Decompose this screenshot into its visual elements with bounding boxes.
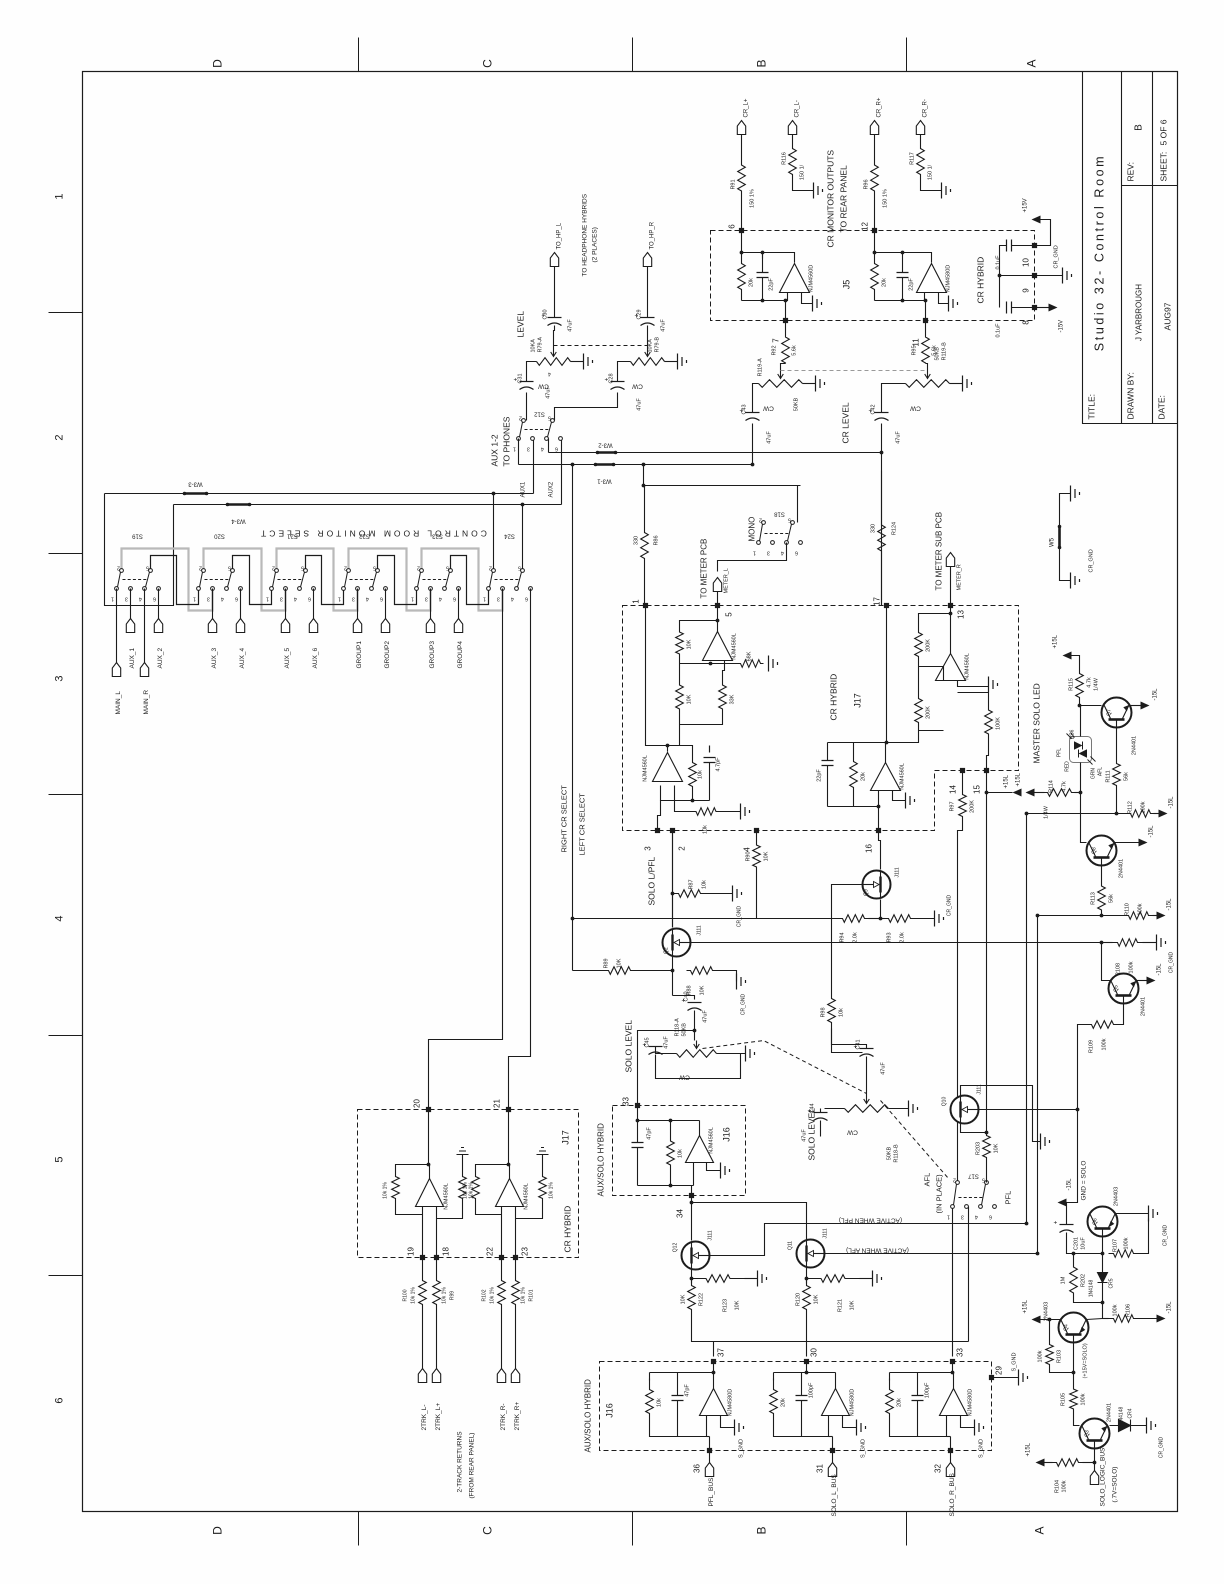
junction bbox=[751, 463, 755, 467]
svg-text:10k: 10k bbox=[657, 1398, 663, 1407]
ground R88 bbox=[737, 974, 746, 990]
ground R116 bbox=[814, 183, 823, 199]
wire R106 to -15L bbox=[1139, 1318, 1157, 1320]
wire to connector AUX_6 bbox=[313, 589, 315, 619]
potentiometer R79-B bbox=[631, 358, 665, 366]
wire 22pF top lead bbox=[762, 253, 764, 273]
svg-text:J17: J17 bbox=[561, 1130, 571, 1145]
wire to summing opamp L bbox=[668, 718, 680, 752]
resistor 20k j17 bbox=[850, 743, 858, 807]
resistor resistor 10k bbox=[646, 1379, 654, 1425]
svg-text:3: 3 bbox=[207, 596, 210, 602]
wire R108 to ground bbox=[1143, 942, 1157, 944]
pin 33 pad lower bbox=[950, 1359, 955, 1364]
resistor 100K j17 bbox=[985, 701, 993, 744]
svg-text:5: 5 bbox=[725, 612, 734, 617]
potentiometer R79-A bbox=[537, 358, 571, 366]
svg-text:29: 29 bbox=[995, 1366, 1004, 1375]
wire R123 to ground bbox=[745, 1278, 758, 1280]
wire to output pad bbox=[950, 1437, 952, 1451]
svg-text:D: D bbox=[211, 59, 225, 68]
svg-text:5: 5 bbox=[301, 565, 304, 571]
wire inv input left bbox=[742, 293, 788, 301]
wire noninv to ground left bbox=[802, 293, 813, 304]
wire bus-b to C43 bbox=[752, 424, 754, 465]
wire CR5 to junction bbox=[1102, 1291, 1104, 1319]
potentiometer R118-B bbox=[845, 1105, 889, 1113]
svg-text:AUX_3: AUX_3 bbox=[211, 648, 218, 669]
wire R94-R93 join bbox=[869, 918, 885, 920]
resistor R97 200K bbox=[959, 789, 967, 823]
svg-text:+: + bbox=[1054, 1220, 1060, 1224]
resistor R91 150 1% bbox=[738, 135, 746, 222]
svg-text:D: D bbox=[211, 1526, 225, 1535]
svg-text:CR_GND: CR_GND bbox=[741, 994, 747, 1016]
svg-text:200K: 200K bbox=[926, 639, 932, 652]
wire 22pF bottom lead bbox=[762, 278, 764, 301]
switch S12 bbox=[517, 419, 563, 441]
svg-text:4: 4 bbox=[294, 596, 297, 602]
svg-text:NJM4580D: NJM4580D bbox=[728, 1389, 734, 1417]
svg-text:1: 1 bbox=[411, 596, 414, 602]
junction bbox=[998, 274, 1002, 278]
svg-text:CR_GND: CR_GND bbox=[1169, 952, 1175, 974]
svg-text:2: 2 bbox=[953, 1177, 956, 1183]
wire inv input right bbox=[875, 293, 925, 301]
wire to C40 bbox=[673, 996, 695, 1000]
svg-text:AUX_6: AUX_6 bbox=[312, 648, 319, 669]
svg-text:R203: R203 bbox=[976, 1142, 982, 1155]
wire to sum R node bbox=[887, 731, 919, 743]
dashed box J17 lower bbox=[358, 1110, 579, 1258]
svg-text:2: 2 bbox=[759, 517, 762, 523]
svg-text:6: 6 bbox=[795, 550, 798, 556]
potentiometer R118-A bbox=[677, 1050, 717, 1058]
wire rg bottom bbox=[516, 1207, 543, 1219]
transistor Q12 J111 bbox=[682, 1242, 710, 1270]
svg-text:R92: R92 bbox=[772, 345, 778, 355]
svg-text:+15L: +15L bbox=[1004, 774, 1010, 788]
gang link dashed R119 bbox=[781, 370, 928, 372]
svg-text:4.7k: 4.7k bbox=[1087, 677, 1093, 688]
wire gate net down to C201 bbox=[1067, 1110, 1078, 1203]
wire noninv to 33K bbox=[723, 661, 725, 677]
svg-text:R120: R120 bbox=[796, 1293, 802, 1306]
resistor R107 100k bbox=[1109, 1250, 1139, 1258]
wire 200K bottom bbox=[919, 730, 944, 732]
svg-text:10k 1%: 10k 1% bbox=[490, 1287, 496, 1304]
resistor 10k gnd leg bbox=[691, 808, 722, 816]
wire Q3 base down bbox=[1094, 1449, 1096, 1463]
wire pin into stage bbox=[952, 1362, 954, 1373]
wire r top bbox=[649, 1373, 651, 1381]
svg-text:C201: C201 bbox=[1074, 1237, 1080, 1250]
svg-text:CR HYBRID: CR HYBRID bbox=[829, 674, 839, 721]
svg-text:68K: 68K bbox=[747, 651, 753, 661]
junction bbox=[1100, 914, 1104, 918]
wire Q7 emitter to R111 bbox=[1116, 728, 1118, 759]
svg-text:1: 1 bbox=[266, 596, 269, 602]
svg-text:METER_L: METER_L bbox=[724, 568, 730, 593]
wire gray select bus segment bbox=[122, 549, 213, 611]
wire pin6 into box bbox=[741, 231, 743, 253]
svg-text:AFL: AFL bbox=[923, 1173, 932, 1187]
svg-text:S17: S17 bbox=[968, 1173, 979, 1179]
wire Q10 source to R203 bbox=[961, 1124, 987, 1133]
resistor R98 10k bbox=[828, 993, 836, 1029]
svg-text:150 1%: 150 1% bbox=[750, 189, 756, 208]
svg-text:AUX2: AUX2 bbox=[549, 481, 555, 497]
capacitor C43 bbox=[746, 412, 760, 414]
pin 8 pad bbox=[1032, 305, 1037, 310]
svg-text:NJM4560L: NJM4560L bbox=[444, 1183, 450, 1210]
wire R121 to ground bbox=[860, 1278, 873, 1280]
wire R102 to connector bbox=[501, 1313, 503, 1369]
svg-text:(ACTIVE WHEN PFL): (ACTIVE WHEN PFL) bbox=[839, 1217, 902, 1224]
resistor 10k J16u bbox=[667, 1121, 675, 1186]
wire stage top rail bbox=[890, 1372, 954, 1374]
connector MAIN_R bbox=[140, 663, 148, 677]
ground near R203 bbox=[1041, 1134, 1050, 1150]
capacitor 100pF bbox=[912, 1396, 924, 1401]
wire stage bottom rail bbox=[650, 1425, 707, 1437]
svg-text:9: 9 bbox=[1022, 288, 1031, 293]
svg-text:NJM4580D: NJM4580D bbox=[850, 1389, 856, 1417]
wire pin1 run bbox=[646, 606, 668, 746]
wire R107 up to gnd rail bbox=[1139, 1219, 1149, 1254]
wire opamp out to node bbox=[885, 743, 887, 763]
wire pot left to C45 bbox=[656, 1047, 677, 1054]
op-amp NJM4560L meter L bbox=[703, 632, 733, 661]
svg-text:12: 12 bbox=[861, 222, 870, 231]
wire wiper B to C29 bbox=[647, 326, 649, 349]
jumper W3-2 bbox=[598, 451, 616, 454]
svg-text:NJM4580D: NJM4580D bbox=[946, 265, 952, 293]
switch S22 bbox=[342, 569, 388, 591]
svg-text:33: 33 bbox=[622, 1097, 631, 1106]
wire to J16 upper input bbox=[638, 1031, 695, 1106]
pin 1 pad bbox=[643, 603, 648, 608]
svg-text:10K: 10K bbox=[764, 851, 770, 861]
wire fb bottom bbox=[396, 1207, 423, 1215]
junction bbox=[669, 1184, 673, 1188]
wire PFL feed vertical bbox=[1026, 814, 1028, 1224]
pin 16 pad bbox=[876, 828, 881, 833]
junction bbox=[427, 1163, 431, 1167]
svg-text:2: 2 bbox=[344, 565, 347, 571]
svg-text:2N4403: 2N4403 bbox=[1114, 1187, 1120, 1206]
wire bus to pin33 bbox=[952, 1342, 954, 1357]
resistor R202 1M bbox=[1070, 1259, 1078, 1302]
svg-text:W3-2: W3-2 bbox=[598, 442, 613, 448]
wire bottom to pad bbox=[947, 1436, 951, 1438]
jumper W3-1 bbox=[596, 463, 614, 466]
resistor R122 10K bbox=[688, 1279, 696, 1317]
svg-text:NJM4580D: NJM4580D bbox=[968, 1389, 974, 1417]
power arrow -15L R110 bbox=[1157, 912, 1166, 920]
svg-text:22pF: 22pF bbox=[817, 769, 823, 782]
svg-text:R202: R202 bbox=[1081, 1274, 1087, 1287]
svg-text:MONO: MONO bbox=[748, 517, 757, 542]
svg-text:6: 6 bbox=[153, 596, 156, 602]
resistor R114 4.7k bbox=[1045, 789, 1075, 797]
connector TO_HP_R bbox=[643, 253, 651, 267]
svg-text:J111: J111 bbox=[895, 867, 901, 877]
svg-text:50KB: 50KB bbox=[794, 397, 800, 411]
wire pad to R100 bbox=[422, 1258, 424, 1273]
svg-text:R110: R110 bbox=[1125, 903, 1131, 916]
wire pot B right to ground bbox=[889, 1108, 909, 1110]
resistor 200K a bbox=[915, 623, 923, 667]
svg-text:16: 16 bbox=[865, 844, 874, 853]
wire CR_L- to R116 bbox=[792, 135, 794, 145]
junction bbox=[1115, 812, 1119, 816]
svg-text:AUX_4: AUX_4 bbox=[239, 648, 246, 669]
svg-text:R119-A: R119-A bbox=[758, 358, 764, 377]
op-amp NJM4580D right bbox=[917, 264, 947, 293]
wire bus-a to C42 bbox=[881, 424, 883, 453]
wire noninv sum R bbox=[893, 791, 906, 801]
wire Q5 to -15L bbox=[1137, 980, 1147, 982]
svg-text:34: 34 bbox=[676, 1209, 685, 1218]
svg-text:+15L: +15L bbox=[1026, 1442, 1032, 1456]
svg-text:R106: R106 bbox=[1126, 1304, 1132, 1317]
svg-text:TITLE:: TITLE: bbox=[1087, 394, 1097, 420]
svg-text:20: 20 bbox=[413, 1099, 422, 1108]
transistor Q7 2N4401 bbox=[1102, 698, 1132, 728]
resistor R105 100k bbox=[1070, 1386, 1078, 1413]
svg-text:-15L: -15L bbox=[1167, 898, 1173, 911]
wire DS6 top bbox=[1080, 706, 1082, 737]
ground CR_GND bottom of W5 bbox=[1071, 573, 1080, 589]
wire pot B to ground bbox=[665, 361, 678, 363]
power arrow +15L R104 bbox=[1036, 1459, 1045, 1467]
connector AUX_6 bbox=[309, 619, 317, 633]
svg-text:CW: CW bbox=[762, 405, 774, 412]
connector GROUP4 bbox=[454, 619, 462, 633]
svg-text:47pF: 47pF bbox=[647, 1127, 653, 1140]
svg-text:CR MONITOR OUTPUTS: CR MONITOR OUTPUTS bbox=[826, 150, 836, 248]
junction bbox=[642, 463, 646, 467]
wire pin8 cap bbox=[1012, 307, 1035, 309]
svg-text:2N4401: 2N4401 bbox=[1132, 736, 1138, 755]
wire bus-a to pin17 bbox=[881, 453, 883, 606]
svg-text:R98: R98 bbox=[821, 1007, 827, 1017]
wire +15L to R114 bbox=[1035, 792, 1045, 794]
wire C40 to wiper R118-A bbox=[694, 1011, 696, 1041]
wire S24 pin2 riser bbox=[493, 494, 495, 571]
svg-text:NJM4560L: NJM4560L bbox=[524, 1183, 530, 1210]
junction bbox=[784, 299, 788, 303]
svg-text:6: 6 bbox=[453, 596, 456, 602]
pin 15 pad bbox=[984, 768, 989, 773]
connector GROUP3 bbox=[426, 619, 434, 633]
svg-text:8: 8 bbox=[1022, 320, 1031, 325]
svg-text:10k 1%: 10k 1% bbox=[549, 1182, 555, 1199]
junction bbox=[690, 1201, 694, 1205]
svg-text:Q9: Q9 bbox=[864, 889, 870, 896]
power arrow -15L R106 bbox=[1157, 1315, 1166, 1323]
svg-text:CR_GND: CR_GND bbox=[737, 906, 743, 928]
junction bbox=[671, 969, 675, 973]
junction bbox=[885, 741, 889, 745]
svg-text:C: C bbox=[481, 59, 495, 68]
svg-text:100k: 100k bbox=[1081, 1393, 1087, 1405]
svg-text:R79-B: R79-B bbox=[655, 337, 661, 353]
resistor R109 100k bbox=[1088, 1021, 1118, 1029]
svg-text:J YARBROUGH: J YARBROUGH bbox=[1135, 284, 1144, 341]
junction bbox=[951, 1371, 955, 1375]
svg-text:200K: 200K bbox=[926, 706, 932, 719]
svg-text:NJM4560D: NJM4560D bbox=[809, 265, 815, 293]
svg-text:100k: 100k bbox=[1038, 1350, 1044, 1362]
wire pin21 into box bbox=[508, 1110, 510, 1165]
ground R recv bbox=[537, 1148, 549, 1161]
wire R87 to ground bbox=[707, 893, 733, 895]
pin 9 pad bbox=[1032, 273, 1037, 278]
wire opamp out bbox=[835, 1373, 837, 1389]
resistor R95 5.6k bbox=[922, 337, 930, 364]
wire black select bus segment bbox=[306, 556, 344, 605]
svg-text:R113: R113 bbox=[1091, 892, 1097, 905]
svg-text:6: 6 bbox=[380, 596, 383, 602]
wire opamp out bbox=[953, 1373, 955, 1389]
svg-text:2-TRACK RETURNS: 2-TRACK RETURNS bbox=[457, 1431, 464, 1493]
capacitor C44 bbox=[814, 1112, 828, 1114]
svg-text:6: 6 bbox=[728, 224, 737, 229]
wire pin2 to Q2 drain bbox=[672, 831, 674, 928]
junction bbox=[949, 612, 953, 616]
svg-text:10uF: 10uF bbox=[1081, 1237, 1087, 1250]
capacitor 0.1uF top bbox=[1007, 240, 1012, 252]
svg-text:J111: J111 bbox=[708, 1230, 714, 1240]
wire to connector AUX_1 bbox=[130, 589, 132, 619]
wire R104 to +15L bbox=[1045, 1462, 1053, 1464]
svg-text:TO HEADPHONE HYBRIDS: TO HEADPHONE HYBRIDS bbox=[582, 193, 589, 276]
wire Q8 to -15L bbox=[1115, 842, 1139, 844]
connector AUX_2 bbox=[154, 619, 162, 633]
wire to connector AUX_2 bbox=[158, 589, 160, 619]
svg-text:10K: 10K bbox=[681, 1294, 687, 1304]
svg-text:Q5: Q5 bbox=[1114, 985, 1120, 992]
svg-text:Studio 32- Control Room: Studio 32- Control Room bbox=[1093, 154, 1107, 351]
svg-text:CW: CW bbox=[678, 1074, 690, 1081]
junction bbox=[712, 1371, 716, 1375]
op-amp NJM4580D solo r bbox=[940, 1389, 968, 1416]
junction bbox=[1101, 1252, 1105, 1256]
svg-text:NJM4560L: NJM4560L bbox=[965, 653, 971, 680]
wire R203 to S17 pin5 bbox=[986, 1161, 988, 1183]
svg-text:AUX/SOLO HYBRID: AUX/SOLO HYBRID bbox=[584, 1379, 593, 1453]
wire to connector AUX_3 bbox=[212, 589, 214, 619]
svg-text:1: 1 bbox=[513, 446, 516, 452]
svg-text:47uF: 47uF bbox=[896, 431, 902, 444]
pin 12 pad bbox=[872, 228, 877, 233]
svg-text:S19: S19 bbox=[132, 533, 143, 539]
wire to R105 bbox=[1073, 1373, 1075, 1386]
wire inv node R bbox=[919, 667, 944, 681]
svg-text:4: 4 bbox=[139, 596, 142, 602]
svg-text:CR5: CR5 bbox=[1109, 1278, 1115, 1288]
wire to output pad bbox=[709, 1437, 711, 1451]
svg-text:10K: 10K bbox=[687, 639, 693, 649]
ground R118-B bbox=[909, 1101, 918, 1117]
pin 4 pad bbox=[754, 828, 759, 833]
svg-text:R124: R124 bbox=[892, 522, 898, 535]
svg-text:2: 2 bbox=[417, 565, 420, 571]
svg-text:6: 6 bbox=[555, 446, 558, 452]
resistor 20k right bbox=[871, 253, 879, 301]
connector CR_L+ bbox=[737, 121, 745, 135]
svg-text:NJM4560L: NJM4560L bbox=[732, 633, 738, 660]
wire wiper R119-A to R92 bbox=[781, 364, 786, 371]
svg-text:3: 3 bbox=[767, 550, 770, 556]
svg-text:4: 4 bbox=[975, 1214, 978, 1220]
wire R117 to ground bbox=[921, 179, 942, 191]
svg-text:10k 1%: 10k 1% bbox=[442, 1287, 448, 1304]
svg-text:37: 37 bbox=[717, 1348, 726, 1357]
wire pin7 to node bbox=[785, 301, 787, 321]
wire wiper A to C30 bbox=[554, 326, 555, 349]
wire R115 to Q7 bbox=[1080, 705, 1102, 707]
ground L2 bbox=[741, 804, 750, 820]
svg-text:47uF: 47uF bbox=[637, 398, 643, 411]
wire gray select bus segment bbox=[204, 549, 286, 611]
wire C29 to TO_HP_R bbox=[647, 267, 649, 318]
op-amp NJM4580D pfl bbox=[700, 1389, 728, 1416]
svg-text:CR_GND: CR_GND bbox=[1054, 245, 1060, 268]
pin 18 pad bbox=[434, 1255, 439, 1260]
svg-text:+15L: +15L bbox=[1023, 1299, 1029, 1313]
wire 100K to pin15 bbox=[987, 744, 989, 771]
wire pin9 rail bbox=[1000, 275, 1035, 277]
svg-text:S23: S23 bbox=[432, 533, 443, 539]
transistor Q8 2N4401 bbox=[1087, 836, 1117, 866]
wire select feed vertical bbox=[572, 465, 574, 971]
jumper W3-3 bbox=[185, 492, 207, 495]
wire to Q11 drain bbox=[692, 1203, 807, 1240]
pin 7 pad bbox=[783, 318, 788, 323]
wire MONO to METER_L stub bbox=[718, 543, 787, 572]
wire pin6 to R91 bbox=[741, 222, 743, 231]
wire black select bus segment bbox=[151, 556, 199, 605]
resistor R104 100k bbox=[1053, 1459, 1083, 1467]
junction bbox=[636, 1119, 640, 1123]
junction bbox=[805, 1371, 809, 1375]
svg-text:1N4148: 1N4148 bbox=[1089, 1280, 1095, 1298]
svg-text:SOLO L/PFL: SOLO L/PFL bbox=[647, 857, 657, 906]
switch S19 bbox=[115, 569, 161, 591]
svg-text:4: 4 bbox=[439, 596, 442, 602]
svg-text:MASTER SOLO LED: MASTER SOLO LED bbox=[1032, 683, 1042, 763]
junction bbox=[1078, 704, 1082, 708]
svg-text:10k: 10k bbox=[702, 880, 708, 889]
wire wiper R119-B to R95 bbox=[926, 364, 928, 371]
wire Q9 source down bbox=[880, 900, 882, 919]
svg-text:AUX_2: AUX_2 bbox=[157, 648, 164, 669]
wire pin2 to C31 bbox=[526, 393, 528, 421]
wire noninv in down bbox=[436, 1207, 438, 1258]
wire to connector GROUP1 bbox=[357, 589, 359, 619]
svg-text:R111: R111 bbox=[1106, 770, 1112, 782]
svg-text:10KA: 10KA bbox=[648, 339, 654, 353]
wire output loop bbox=[396, 1165, 430, 1179]
svg-text:CR_L-: CR_L- bbox=[795, 100, 801, 117]
pin 36 pad bbox=[707, 1448, 712, 1453]
pin 19 pad bbox=[420, 1255, 425, 1260]
capacitor C41 bbox=[860, 1048, 874, 1050]
wire to C201 bbox=[1066, 1203, 1068, 1225]
